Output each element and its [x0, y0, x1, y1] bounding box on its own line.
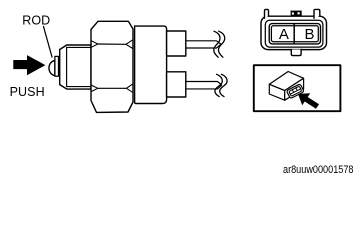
terminal T1: [167, 31, 186, 56]
hex facet knee, top: [98, 43, 126, 45]
leader line from ROD to rod tip: [44, 27, 53, 58]
hex nut: [91, 21, 133, 112]
inset box frame: [254, 65, 341, 111]
svg-text:ROD: ROD: [22, 14, 50, 28]
connector left ear: [265, 9, 269, 18]
terminal T2: [167, 72, 186, 97]
3d connector top face: [269, 72, 303, 91]
hex facet knee, bottom: [98, 87, 127, 89]
wire W1 break symbol: [214, 31, 220, 57]
svg-text:B: B: [305, 26, 315, 43]
connector bottom tab: [291, 50, 301, 56]
threaded body: [60, 45, 91, 89]
inset arrow (black, pointing up-left): [298, 93, 319, 109]
wire W1: [186, 41, 221, 48]
3d connector socket: [286, 84, 304, 99]
connector right ear: [314, 9, 320, 18]
svg-text:ar8uuw00001578: ar8uuw00001578: [283, 164, 354, 176]
3d connector front face: [269, 84, 284, 100]
push arrow (black, pointing right): [13, 55, 45, 75]
3d connector right face: [285, 78, 304, 100]
connector shell inner line: [265, 20, 323, 47]
connector lock tab (black): [291, 11, 302, 16]
connector shell outer line: [261, 16, 327, 49]
terminal divider: [293, 24, 295, 44]
thread rim lines: [67, 47, 91, 86]
svg-text:PUSH: PUSH: [10, 85, 45, 99]
terminal housing inner border: [271, 26, 318, 42]
wire W2: [186, 82, 222, 89]
svg-text:A: A: [279, 26, 289, 43]
rod dome tip: [49, 61, 55, 76]
rod collar: [55, 56, 59, 76]
wire W2 break symbol: [215, 74, 222, 96]
terminal housing outer border: [269, 24, 320, 44]
cylindrical switch body: [135, 26, 167, 103]
